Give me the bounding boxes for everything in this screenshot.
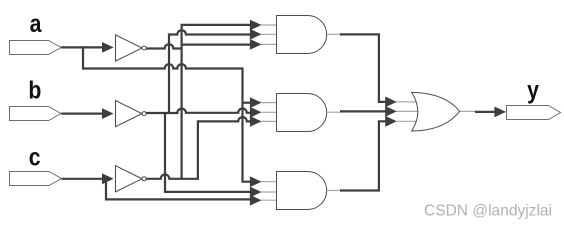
wire AND3 output to OR.in3 (327, 190, 341, 192)
wire net c' : NOT U3 output right, hop over x165, to vertical tees (146, 175, 199, 179)
inverter U3 (input c) (116, 166, 147, 192)
output port y (507, 106, 561, 120)
wire vertical net x181.6: from AND1.in1 corner down to c' wire, tees to AND1.in3 (182, 25, 252, 179)
svg-text:CSDN @landyjzlai: CSDN @landyjzlai (424, 203, 552, 220)
or-gate U7 (412, 92, 460, 131)
arrowhead into U2 (102, 108, 114, 119)
arrowhead into port y (494, 107, 506, 118)
wire stubs AND3 inputs (261, 182, 276, 201)
wire net b' down: vertical x165 from b' wire down, corner to AND3.in2 (165, 113, 252, 192)
wire AND1 output to OR.in1 (327, 33, 341, 35)
inverter U1 (input a) (116, 35, 147, 61)
wire net c' up: vertical x197.9 from c' wire to AND2.in3, hop over x242.5 (198, 117, 252, 179)
arrowheads OR inputs (385, 97, 397, 108)
svg-text:a: a (30, 9, 43, 37)
wire port a tee to NOT U1 input (83, 46, 104, 48)
wire net a' : NOT U1 output to vertical x181.6, hop over x169 (146, 44, 182, 48)
inverter U2 (input b) (116, 101, 147, 127)
wire AND2 output to OR.in2 (327, 111, 341, 113)
svg-text:c: c (29, 143, 41, 171)
wire OR output to port y (460, 110, 476, 112)
and-gate U5 (middle) (277, 94, 327, 132)
arrowheads AND1 inputs (250, 20, 262, 31)
wire net b' : NOT U2 output to AND2.in2, hops over x181.7 and x242.5 (146, 108, 252, 113)
wire net a: port a to tee at x83, down to y68.5, right with hops over x169/x181.6, down x242.5 to AND3.in1; tee to AND2.in1 (61, 47, 252, 181)
wire net b: port b to NOT U2 input (61, 112, 104, 114)
arrowhead into U3 (102, 173, 114, 184)
wire stubs AND2 inputs (261, 103, 276, 122)
arrowheads AND2 inputs (250, 97, 262, 108)
and-gate U4 (top) (277, 16, 327, 54)
wire net c: port c to NOT U3 input, tee at x106 down to AND3.in3 (61, 178, 107, 180)
svg-text:y: y (527, 76, 539, 104)
svg-text:b: b (28, 76, 41, 104)
arrowheads AND3 inputs (250, 176, 262, 187)
wire stubs AND1 inputs (261, 25, 276, 44)
wire net a tee to AND2 input 1 (243, 102, 252, 104)
input port c (10, 172, 62, 186)
input port a (10, 41, 62, 55)
input port b (10, 107, 62, 121)
arrowhead into U1 (102, 42, 114, 53)
and-gate U6 (bottom) (277, 172, 327, 210)
wire net b' up: vertical x169 from b' wire to AND1.in2, hop over x181.6 (169, 30, 252, 112)
